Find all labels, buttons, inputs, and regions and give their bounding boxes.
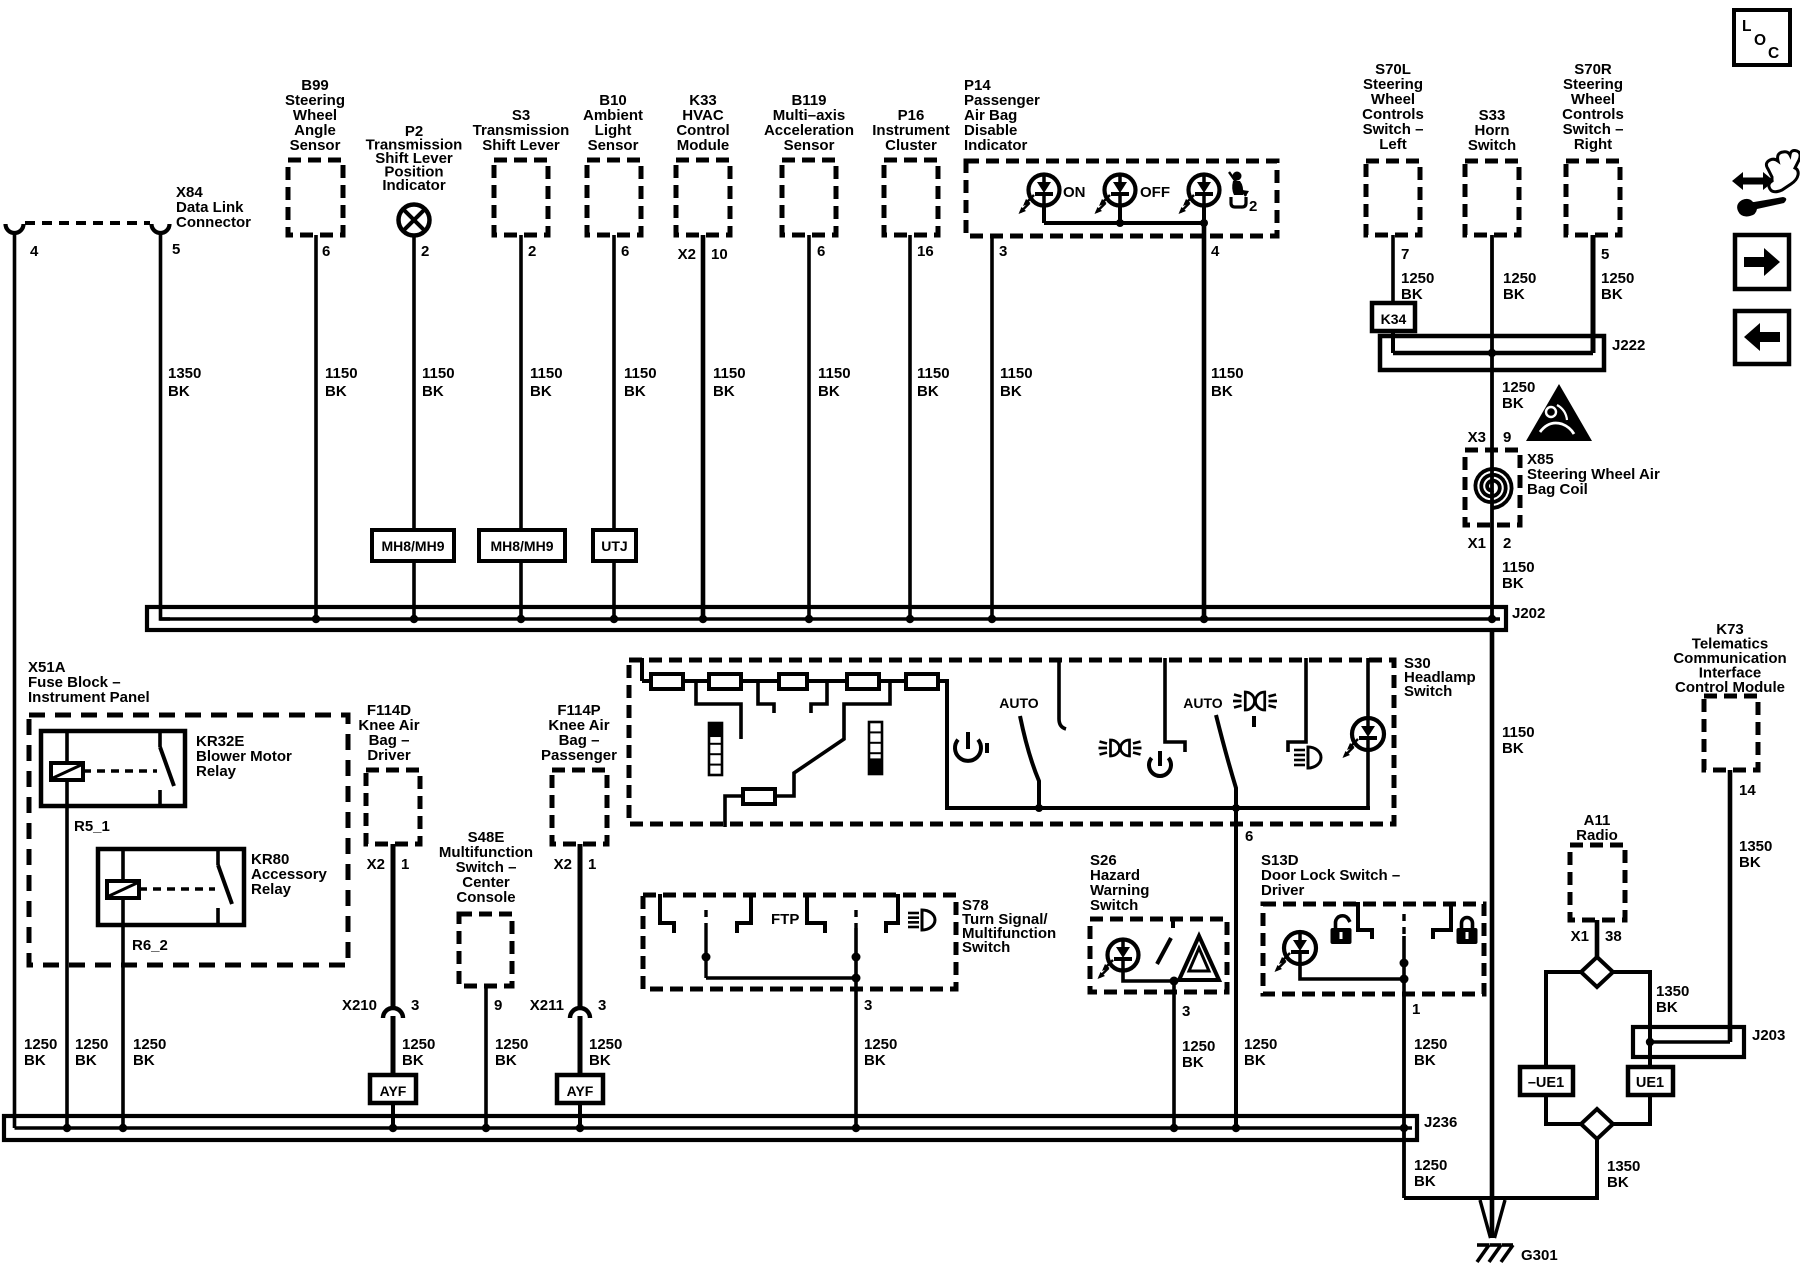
svg-text:BK: BK: [1502, 395, 1524, 412]
svg-text:FTP: FTP: [771, 911, 799, 928]
connector X84 Data Link Connector label: [176, 184, 251, 231]
splice sleeve AYF (passenger): [557, 1075, 603, 1103]
wire 1250 BK from S30 pin 6 to J236: [1232, 804, 1277, 1128]
legend box arrow right: [1735, 235, 1789, 289]
svg-text:Sensor: Sensor: [290, 137, 341, 154]
wire 1250 BK from S48E pin 9 to J236: [486, 986, 528, 1128]
warning triangle air bag symbol: [1526, 384, 1592, 441]
power off icon 2 bracket in S30: [1165, 658, 1185, 752]
module K73 Telematics Communication Interface Control Module: [1673, 621, 1786, 770]
S30 resistor bus feed: [642, 658, 947, 681]
head lamp bracket in S30: [1288, 658, 1306, 752]
svg-text:1250: 1250: [864, 1036, 897, 1053]
svg-text:1150: 1150: [624, 365, 657, 382]
svg-text:1150: 1150: [818, 365, 851, 382]
svg-text:Passenger: Passenger: [541, 747, 617, 764]
svg-text:1: 1: [401, 856, 409, 873]
switch blade AUTO 1 in S30: [1020, 716, 1043, 812]
wire in S26 from LED to pin 3: [1123, 970, 1179, 986]
wire 1250 BK from F114P X2 pin 1: [554, 844, 623, 1069]
svg-text:AUTO: AUTO: [1183, 695, 1223, 711]
label G301: [1521, 1247, 1558, 1264]
svg-text:38: 38: [1605, 928, 1622, 945]
svg-text:X1: X1: [1571, 928, 1589, 945]
svg-text:1350: 1350: [1739, 838, 1772, 855]
connector X84 pin 4 hook terminal: [6, 224, 40, 260]
svg-text:OFF: OFF: [1140, 184, 1170, 201]
svg-text:1150: 1150: [1211, 365, 1244, 382]
label FTP: [771, 911, 799, 928]
svg-text:MH8/MH9: MH8/MH9: [381, 538, 444, 554]
wire from AYF to J236: [578, 1103, 582, 1128]
LED OFF indicator in P14: [1095, 175, 1171, 215]
wire from AYF to J236: [391, 1103, 395, 1128]
relay KR32E Blower Motor Relay: [41, 731, 292, 806]
wire 1150 BK from B99 pin 6 to J202: [316, 235, 358, 619]
wire below X210 to AYF: [391, 1016, 396, 1075]
label J236: [1424, 1114, 1457, 1131]
svg-text:3: 3: [598, 997, 606, 1014]
connector X211 pin 3 hook: [530, 997, 607, 1018]
svg-text:BK: BK: [422, 383, 444, 400]
wire right branch 1350 BK to J203/UE1: [1613, 972, 1689, 1067]
wire below X211 to AYF: [578, 1016, 583, 1075]
label AUTO 1: [999, 695, 1039, 711]
svg-text:BK: BK: [1211, 383, 1233, 400]
parking lamp icon 1 in S30: [1099, 740, 1142, 756]
svg-text:BK: BK: [1000, 383, 1022, 400]
wire 1250 BK from S26 pin 3 to J236: [1174, 981, 1215, 1128]
svg-text:R5_1: R5_1: [74, 818, 110, 835]
svg-text:Switch: Switch: [1090, 897, 1138, 914]
svg-text:1250: 1250: [1503, 270, 1536, 287]
svg-text:X211: X211: [530, 997, 564, 1014]
wire 1250 BK from S13D pin 1 to J236: [1404, 994, 1447, 1140]
svg-text:Sensor: Sensor: [588, 137, 639, 154]
power off icon 2 in S30: [1149, 751, 1171, 776]
wire 1150 BK from B119 pin 6 to J202: [809, 235, 851, 619]
label R6_2: [132, 937, 168, 954]
svg-text:Indicator: Indicator: [382, 177, 446, 194]
flash to pass icon in S78: [908, 910, 935, 930]
wire dashed between X84 pins 4 and 5: [25, 221, 150, 225]
wire stub D with wiper diagonal in S30: [775, 681, 890, 796]
svg-text:Radio: Radio: [1576, 827, 1618, 844]
svg-text:1150: 1150: [325, 365, 358, 382]
svg-text:16: 16: [917, 243, 934, 260]
svg-text:BK: BK: [1601, 286, 1623, 303]
label AUTO 2: [1183, 695, 1223, 711]
connector J203: [1633, 1027, 1785, 1057]
svg-text:4: 4: [1211, 243, 1220, 260]
icon seat belt passenger with subscript 2: [1229, 172, 1257, 216]
splice diamond upper: [1581, 957, 1613, 987]
LED ON indicator in P14: [1019, 175, 1086, 215]
svg-text:L: L: [1742, 18, 1751, 35]
svg-text:5: 5: [1601, 246, 1609, 263]
wire 1250 BK from S33 through J222: [1492, 235, 1536, 450]
switch S3 Transmission Shift Lever: [473, 107, 570, 235]
svg-text:–UE1: –UE1: [1528, 1075, 1564, 1091]
svg-text:BK: BK: [1414, 1173, 1436, 1190]
svg-text:BK: BK: [1244, 1052, 1266, 1069]
wire 1350 BK from lower diamond to ground run: [1404, 1139, 1640, 1198]
svg-text:3: 3: [999, 243, 1007, 260]
connector X84 pin 5 hook terminal: [152, 224, 181, 258]
movable contact right wire in S78: [706, 910, 861, 983]
switch S70L Steering Wheel Controls Switch Left: [1362, 61, 1424, 235]
svg-text:1250: 1250: [1401, 270, 1434, 287]
svg-text:BK: BK: [1503, 286, 1525, 303]
svg-text:1250: 1250: [75, 1036, 108, 1053]
resistor R3 in S30: [779, 674, 807, 689]
relay KR80 Accessory Relay: [98, 849, 328, 925]
svg-text:BK: BK: [1607, 1174, 1629, 1191]
wire from -UE1 to lower diamond: [1546, 1095, 1581, 1124]
svg-text:Left: Left: [1379, 136, 1407, 153]
LED passenger belt indicator in P14: [1179, 175, 1220, 215]
sensor B119 Multi-axis Acceleration Sensor: [764, 92, 854, 235]
svg-text:AUTO: AUTO: [999, 695, 1039, 711]
svg-text:X3: X3: [1468, 429, 1486, 446]
fuse block X51A Instrument Panel label: [28, 659, 150, 706]
cluster P16 Instrument Cluster: [872, 107, 950, 235]
svg-text:MH8/MH9: MH8/MH9: [490, 538, 553, 554]
svg-text:AYF: AYF: [380, 1083, 407, 1099]
wire 1150 BK from J202 down to ground G301: [1492, 630, 1535, 1238]
svg-text:6: 6: [1245, 828, 1253, 845]
svg-text:J203: J203: [1752, 1027, 1785, 1044]
segment bar 1 in S30: [709, 723, 722, 775]
legend box arrow left: [1735, 311, 1789, 364]
contact lock in S13D: [1433, 902, 1451, 939]
svg-text:1150: 1150: [1502, 559, 1535, 576]
wire from LED to contact in S13D: [1300, 964, 1404, 979]
wire 1350 BK from X84 pin 5 down into J202 rail: [161, 232, 171, 619]
svg-text:Connector: Connector: [176, 214, 251, 231]
svg-text:X2: X2: [554, 856, 572, 873]
svg-text:Relay: Relay: [251, 881, 292, 898]
splice pack J222: [1380, 336, 1645, 370]
contact drop in S30: [1059, 658, 1066, 729]
wire 1250 BK from KR32E to J236: [67, 806, 108, 1128]
svg-text:J222: J222: [1612, 337, 1645, 354]
svg-text:1350: 1350: [1607, 1158, 1640, 1175]
svg-text:3: 3: [411, 997, 419, 1014]
svg-text:Indicator: Indicator: [964, 137, 1028, 154]
svg-text:AYF: AYF: [567, 1083, 594, 1099]
svg-text:BK: BK: [818, 383, 840, 400]
connector X85 Steering Wheel Air Bag Coil: [1465, 429, 1660, 552]
svg-text:BK: BK: [1502, 740, 1524, 757]
wire 1150 BK from S3 pin 2 to J202: [521, 235, 563, 619]
svg-text:BK: BK: [402, 1052, 424, 1069]
svg-text:1150: 1150: [530, 365, 563, 382]
svg-text:1150: 1150: [713, 365, 746, 382]
svg-text:Switch: Switch: [1468, 137, 1516, 154]
svg-text:G301: G301: [1521, 1247, 1558, 1264]
contact unlock in S13D: [1358, 902, 1372, 939]
svg-text:1150: 1150: [1000, 365, 1033, 382]
splice sleeve AYF (driver): [370, 1075, 416, 1103]
svg-text:J236: J236: [1424, 1114, 1457, 1131]
svg-text:ON: ON: [1063, 184, 1086, 201]
svg-text:6: 6: [322, 243, 330, 260]
svg-text:Cluster: Cluster: [885, 137, 937, 154]
svg-text:1: 1: [588, 856, 596, 873]
wire 1250 BK from S70L pin 7 to K34: [1393, 235, 1434, 303]
svg-text:O: O: [1754, 32, 1766, 49]
svg-text:UE1: UE1: [1636, 1075, 1664, 1091]
svg-text:BK: BK: [75, 1052, 97, 1069]
switch S78 Turn Signal Multifunction Switch: [643, 895, 1056, 989]
air bag F114D Knee Air Bag Driver: [358, 702, 420, 844]
svg-text:Switch: Switch: [1404, 683, 1452, 700]
svg-text:R6_2: R6_2: [132, 937, 168, 954]
splice sleeve UTJ (B10 wire): [593, 530, 636, 561]
wire label 1350 BK: [168, 365, 201, 400]
movable contact left in S78: [702, 910, 711, 978]
svg-text:BK: BK: [917, 383, 939, 400]
svg-text:1: 1: [1412, 1001, 1420, 1018]
svg-text:BK: BK: [1739, 854, 1761, 871]
svg-text:BK: BK: [24, 1052, 46, 1069]
svg-text:Driver: Driver: [1261, 882, 1305, 899]
svg-text:Console: Console: [456, 889, 515, 906]
svg-text:BK: BK: [864, 1052, 886, 1069]
svg-text:BK: BK: [589, 1052, 611, 1069]
icon closed padlock in S13D: [1457, 918, 1478, 944]
wire label 1250 BK (pin 4 wire): [24, 1036, 57, 1069]
resistor R4 in S30: [847, 674, 879, 689]
wire label 1250 BK below J222: [1502, 379, 1535, 412]
splice diamond lower: [1581, 1109, 1613, 1139]
indicator P14 box: [966, 161, 1277, 236]
switch S33 Horn Switch: [1465, 107, 1519, 235]
splice pack J236: [4, 1116, 1417, 1140]
wire 1150 BK from P2 pin 2 to J202: [414, 235, 455, 619]
contact 2 in S78: [737, 894, 751, 933]
wire 1150 BK from P14 pin 3 to J202: [992, 236, 1033, 619]
svg-text:1250: 1250: [24, 1036, 57, 1053]
switch S26 Hazard Warning Switch: [1090, 852, 1227, 992]
svg-text:BK: BK: [530, 383, 552, 400]
wire connecting P14 LEDs: [1044, 205, 1208, 227]
svg-text:2: 2: [1249, 198, 1257, 215]
indicator P14 Passenger Air Bag Disable Indicator label: [964, 77, 1040, 154]
segment bar 2 in S30: [869, 722, 882, 774]
svg-text:1150: 1150: [1502, 724, 1535, 741]
svg-text:1250: 1250: [1244, 1036, 1277, 1053]
wire 1250 BK from S78 pin 3 to J236: [856, 928, 897, 1128]
ground arrow convergence: [1480, 1200, 1505, 1238]
svg-text:7: 7: [1401, 246, 1409, 263]
svg-text:2: 2: [1503, 535, 1511, 552]
svg-text:BK: BK: [713, 383, 735, 400]
J202 junction dots: [312, 615, 1496, 623]
svg-text:Shift Lever: Shift Lever: [482, 137, 560, 154]
splice sleeve MH8/MH9 (P2 wire): [372, 530, 454, 561]
svg-text:X1: X1: [1468, 535, 1486, 552]
parking lamp icon 2 in S30: [1233, 692, 1277, 727]
svg-text:1250: 1250: [133, 1036, 166, 1053]
svg-text:1150: 1150: [917, 365, 950, 382]
svg-text:BK: BK: [325, 383, 347, 400]
svg-text:BK: BK: [495, 1052, 517, 1069]
svg-text:C: C: [1768, 45, 1779, 62]
svg-text:1250: 1250: [1414, 1036, 1447, 1053]
radio A11: [1570, 812, 1625, 920]
LED in S26: [1098, 940, 1139, 980]
contact 1 in S78: [660, 894, 674, 933]
svg-text:Relay: Relay: [196, 763, 237, 780]
svg-text:9: 9: [1503, 429, 1511, 446]
legend box L O C: [1734, 10, 1790, 65]
svg-text:1150: 1150: [422, 365, 455, 382]
head lamp icon in S30: [1294, 747, 1321, 768]
svg-text:6: 6: [817, 243, 825, 260]
svg-text:1250: 1250: [589, 1036, 622, 1053]
wire 1150 BK from P16 pin 16 to J202: [910, 235, 950, 619]
module K33 HVAC Control Module: [676, 92, 730, 235]
splice K34: [1372, 303, 1415, 331]
svg-text:2: 2: [421, 243, 429, 260]
LED in S30: [1343, 658, 1385, 808]
resistor R1 in S30: [651, 674, 683, 689]
svg-text:BK: BK: [1401, 286, 1423, 303]
switch S48E Multifunction Switch Center Console: [439, 829, 533, 986]
svg-text:10: 10: [711, 246, 728, 263]
J236 junction dots: [63, 1124, 1408, 1132]
connector X210 pin 3 hook: [342, 997, 419, 1018]
sensor B10 Ambient Light Sensor: [583, 92, 643, 235]
svg-text:4: 4: [30, 243, 39, 260]
svg-text:1250: 1250: [1601, 270, 1634, 287]
splice pack J202: [147, 607, 1506, 630]
svg-text:BK: BK: [1414, 1052, 1436, 1069]
svg-text:Module: Module: [677, 137, 730, 154]
svg-text:X210: X210: [342, 997, 377, 1014]
splice sleeve MH8/MH9 (S3 wire): [479, 530, 565, 561]
svg-text:1250: 1250: [1502, 379, 1535, 396]
wire 1150 BK from K33 X2 pin 10 to J202: [678, 235, 746, 619]
wire 1150 BK from B10 pin 6 to J202: [614, 235, 657, 619]
svg-text:Right: Right: [1574, 136, 1612, 153]
net UE1: [1628, 1067, 1673, 1095]
svg-text:3: 3: [1182, 1003, 1190, 1020]
resistor R2 in S30: [709, 674, 741, 689]
svg-text:3: 3: [864, 997, 872, 1014]
svg-text:Instrument Panel: Instrument Panel: [28, 689, 150, 706]
wire stub A in S30: [696, 681, 741, 739]
svg-text:6: 6: [621, 243, 629, 260]
fuse block X51A box: [29, 715, 348, 965]
svg-text:BK: BK: [1502, 575, 1524, 592]
svg-text:Control Module: Control Module: [1675, 679, 1785, 696]
svg-text:1250: 1250: [1182, 1038, 1215, 1055]
svg-text:Bag Coil: Bag Coil: [1527, 481, 1588, 498]
switch S70R Steering Wheel Controls Switch Right: [1562, 61, 1624, 235]
wire from K34 into J222: [1391, 331, 1395, 353]
label J202: [1512, 605, 1545, 622]
svg-text:BK: BK: [1656, 999, 1678, 1016]
svg-text:BK: BK: [1182, 1054, 1204, 1071]
wire stub C in S30: [811, 681, 827, 713]
wire 1250 BK from S70R pin 5 into J222: [1593, 235, 1634, 353]
contact 4 in S78: [886, 894, 898, 933]
resistor R5 in S30: [906, 674, 938, 689]
svg-text:Sensor: Sensor: [784, 137, 835, 154]
wire 1250 BK from KR80 to J236: [123, 925, 166, 1128]
wire 1150 BK from P14 pin 4 to J202: [1204, 223, 1244, 619]
S30 right elbow and output rail: [938, 681, 1370, 808]
svg-text:1250: 1250: [495, 1036, 528, 1053]
wire 1250 BK from S13D below J236 to ground run: [1404, 1140, 1447, 1198]
svg-text:BK: BK: [133, 1052, 155, 1069]
wire 1250 BK from F114D X2 pin 1: [367, 844, 436, 1069]
svg-text:1350: 1350: [1656, 983, 1689, 1000]
svg-text:BK: BK: [168, 383, 190, 400]
air bag F114P Knee Air Bag Passenger: [541, 702, 617, 844]
svg-text:X2: X2: [678, 246, 696, 263]
label R5_1: [74, 818, 110, 835]
switch S30 Headlamp Switch box: [629, 655, 1476, 824]
svg-text:X2: X2: [367, 856, 385, 873]
hazard triangle icon in S26: [1179, 936, 1219, 980]
wire 1150 BK from X85 X1 pin 2 to J202: [1492, 525, 1535, 619]
wire left branch to -UE1: [1546, 972, 1581, 1067]
indicator P2 Transmission Shift Lever Position Indicator: [366, 123, 463, 236]
switch S13D Door Lock Switch Driver: [1261, 852, 1484, 994]
ground G301 symbol: [1477, 1245, 1513, 1262]
svg-text:5: 5: [172, 241, 180, 258]
power off icon 1 in S30: [955, 732, 987, 761]
svg-text:1250: 1250: [1414, 1157, 1447, 1174]
wire from UE1 to lower diamond: [1613, 1095, 1650, 1124]
wire from A11 X1 pin 38: [1571, 920, 1622, 958]
svg-text:2: 2: [528, 243, 536, 260]
switch blade in S26: [1157, 917, 1173, 964]
svg-text:14: 14: [1739, 782, 1756, 799]
sensor B99 Steering Wheel Angle Sensor: [285, 77, 345, 235]
contact 3 in S78: [807, 894, 825, 933]
movable contact in S13D: [1400, 914, 1409, 994]
icon wiring harness navigation (hand with arrows and wrench): [1732, 151, 1800, 217]
svg-text:1350: 1350: [168, 365, 201, 382]
svg-text:J202: J202: [1512, 605, 1545, 622]
wire 1350 BK from K73 pin 14 to J203: [1730, 770, 1772, 1042]
svg-text:Switch: Switch: [962, 939, 1010, 956]
svg-text:9: 9: [494, 997, 502, 1014]
wire stub B in S30: [758, 681, 774, 713]
LED in S13D: [1275, 932, 1317, 972]
switch blade AUTO 2 in S30: [1216, 715, 1236, 808]
net -UE1: [1520, 1067, 1573, 1095]
svg-text:K34: K34: [1381, 311, 1407, 327]
svg-text:Driver: Driver: [367, 747, 411, 764]
icon open padlock in S13D: [1331, 916, 1352, 944]
svg-text:1250: 1250: [402, 1036, 435, 1053]
wire 1250 BK from X84 pin 4 down to J236: [13, 232, 17, 1128]
svg-text:UTJ: UTJ: [601, 538, 627, 554]
svg-text:BK: BK: [624, 383, 646, 400]
resistor R6 bottom in S30: [725, 789, 775, 827]
